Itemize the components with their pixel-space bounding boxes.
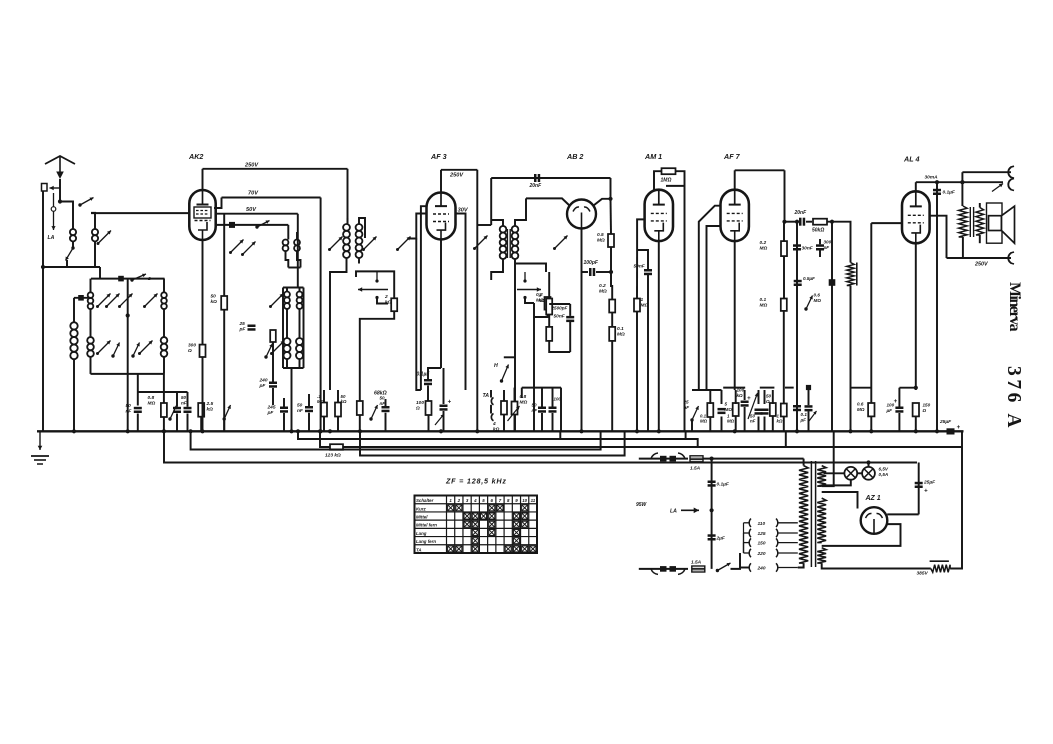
node bus d7 xyxy=(795,429,799,433)
svg-text:AZ 1: AZ 1 xyxy=(865,495,881,502)
ground symbol xyxy=(31,431,49,464)
svg-text:Minerva: Minerva xyxy=(1006,282,1023,332)
svg-text:150: 150 xyxy=(758,541,766,547)
capacitor 0.1u AF3 xyxy=(417,372,433,386)
node bus d4 xyxy=(162,429,166,433)
svg-text:1.5A: 1.5A xyxy=(690,466,701,472)
wire b5 top xyxy=(758,390,760,404)
wire rL gnd xyxy=(549,341,570,352)
wire rTA a xyxy=(503,390,505,401)
wire c300 b xyxy=(819,251,821,258)
svg-text:50nF: 50nF xyxy=(634,264,646,270)
coil IF1 sec xyxy=(356,224,363,258)
capacitor 50n L xyxy=(554,314,575,323)
wire AF7 cath xyxy=(734,241,736,390)
wire AL4 screen xyxy=(930,216,947,258)
svg-text:nF: nF xyxy=(684,405,690,410)
coil IF2 pri xyxy=(500,226,507,259)
wire antenna tap xyxy=(60,202,73,230)
resistor 123k xyxy=(330,444,343,450)
node bus r2 xyxy=(318,429,322,433)
svg-text:pF: pF xyxy=(823,245,830,250)
wire AL4 grid rail xyxy=(870,223,872,403)
svg-text:LA: LA xyxy=(48,235,55,241)
wire g2 up xyxy=(214,198,222,209)
node AVC xyxy=(608,197,612,201)
wire IF2 avc up xyxy=(490,178,492,225)
plug bottom xyxy=(651,566,685,574)
wire osc m1 xyxy=(286,309,288,338)
wire 100u b xyxy=(898,388,900,407)
wire cd top xyxy=(308,394,310,406)
capacitor 50nF b xyxy=(173,407,181,413)
jack out2 xyxy=(1008,179,1014,191)
wire b1 top xyxy=(709,390,711,404)
label 50V xyxy=(246,207,257,213)
wire frame bottom xyxy=(91,373,165,375)
capacitor b10 xyxy=(805,405,813,411)
voltage tap 125 xyxy=(749,529,798,537)
wire b6 gnd xyxy=(764,417,766,432)
node coup xyxy=(830,220,834,224)
wire tap 110 xyxy=(744,523,749,553)
wire r01 gnd xyxy=(611,341,613,431)
wire r05 down xyxy=(610,247,612,272)
svg-text:100pF: 100pF xyxy=(584,260,599,266)
resistor 50k coup xyxy=(812,219,827,234)
capacitor 300pF xyxy=(816,240,832,251)
svg-text:123 kΩ: 123 kΩ xyxy=(325,453,341,459)
wire osc m2 xyxy=(299,309,301,338)
wire cf a xyxy=(541,388,543,407)
svg-text:0.1µF: 0.1µF xyxy=(943,190,956,196)
resistor 385V xyxy=(930,561,951,572)
wire choke b xyxy=(850,286,852,294)
wire AK2 cathode xyxy=(202,240,204,345)
node bus r4 xyxy=(189,429,193,433)
switch S7 xyxy=(168,406,176,421)
wire b frame1 xyxy=(692,389,722,391)
tube AF3 xyxy=(427,152,456,240)
capacitor 100pF xyxy=(584,260,599,276)
wire tap 150 xyxy=(744,543,749,553)
wire AZ1 plate2 xyxy=(822,524,901,546)
wire ra gnd xyxy=(323,417,325,432)
label 25n xyxy=(683,400,690,410)
switch S1 xyxy=(66,246,75,260)
svg-text:385V: 385V xyxy=(917,571,929,577)
wire k link2 xyxy=(899,387,915,389)
svg-text:Lang: Lang xyxy=(416,531,427,536)
svg-text:50V: 50V xyxy=(246,207,257,213)
node bus d6 xyxy=(635,429,639,433)
wire S1 gnd xyxy=(66,260,68,267)
capacitor grid blk xyxy=(829,279,836,286)
switch S6 xyxy=(264,344,272,359)
wire rb gnd xyxy=(337,417,339,432)
wire IF1 sec bot xyxy=(358,258,360,264)
wire r08 gnd xyxy=(163,417,165,431)
wire osc d1 xyxy=(286,251,289,267)
coil L7 xyxy=(161,337,168,357)
jack TA up xyxy=(491,398,493,405)
node mains xyxy=(710,457,714,461)
wire spk rail top xyxy=(961,172,963,206)
inductor hum choke xyxy=(847,263,857,286)
svg-text:AL 4: AL 4 xyxy=(903,155,919,164)
wire AF3 cath xyxy=(440,240,442,369)
capacitor 100u xyxy=(894,398,904,413)
svg-text:+: + xyxy=(957,424,961,431)
wire bus corner xyxy=(961,431,963,447)
wire frame L top xyxy=(90,279,92,293)
wire AF7 rc xyxy=(783,311,785,404)
svg-text:6,5V: 6,5V xyxy=(879,467,889,472)
switch b10 xyxy=(809,411,817,421)
wire return LC xyxy=(191,431,601,449)
coil L1 antenna xyxy=(70,229,76,241)
svg-text:0.2: 0.2 xyxy=(760,240,767,246)
tube AL4 xyxy=(902,155,930,244)
wire cf b xyxy=(541,413,543,431)
wire return LA xyxy=(298,431,698,447)
wire frame 522 xyxy=(521,388,523,398)
transformer IF2 core xyxy=(507,229,510,258)
resistor 0.2M L xyxy=(536,292,552,315)
wire 240 b xyxy=(272,388,274,405)
wire c100 a xyxy=(582,271,589,273)
wire block drop2 xyxy=(163,374,165,403)
wire AM1 ca xyxy=(637,250,648,269)
svg-text:MΩ: MΩ xyxy=(727,419,735,424)
svg-text:kΩ: kΩ xyxy=(737,393,744,398)
node gnd link xyxy=(41,265,45,269)
wire AF7 rb xyxy=(783,256,785,298)
wire 70V drop xyxy=(320,198,322,432)
wire AZ1 plate1 xyxy=(822,492,858,509)
voltage tap 110 xyxy=(749,519,798,527)
svg-text:1MΩ: 1MΩ xyxy=(661,178,672,184)
svg-text:50: 50 xyxy=(380,396,386,401)
svg-text:Lang fern: Lang fern xyxy=(416,539,436,544)
wire b frame2b xyxy=(760,387,775,389)
node t2 xyxy=(960,180,964,184)
capacitor b9 xyxy=(793,405,801,411)
tube AZ1 xyxy=(861,507,888,534)
trimmer osc4 xyxy=(270,341,285,356)
label LA xyxy=(48,235,55,241)
node k link xyxy=(914,386,918,390)
svg-text:AB 2: AB 2 xyxy=(566,152,583,161)
resistor L b xyxy=(546,327,552,341)
wire prim bot xyxy=(798,563,804,567)
switch TA2 arm xyxy=(517,272,541,299)
node bus h xyxy=(914,429,918,433)
wire 50k tap xyxy=(223,214,225,296)
wire heater rail xyxy=(850,293,852,431)
node bus b xyxy=(289,429,293,433)
svg-text:245: 245 xyxy=(267,405,276,411)
resistor 300 xyxy=(187,343,206,358)
wire tap 125 xyxy=(744,533,749,553)
svg-text:100: 100 xyxy=(554,397,562,402)
switch box TA2 xyxy=(516,264,546,273)
wire 832 rail b xyxy=(831,286,833,432)
svg-text:50kΩ: 50kΩ xyxy=(812,228,824,234)
wire b3 top xyxy=(735,390,737,404)
svg-text:50: 50 xyxy=(297,403,303,409)
wire gnd link xyxy=(43,266,100,268)
wire s8 stub xyxy=(223,419,225,431)
wire AVC drop xyxy=(610,178,612,199)
fuse 1.5A bot xyxy=(692,566,705,572)
capacitor b6 xyxy=(761,409,769,415)
wire b5 gnd xyxy=(758,417,760,432)
trimmer C5 xyxy=(143,294,158,309)
wire tall top xyxy=(73,298,75,322)
wire AL4 top xyxy=(916,181,1003,183)
node bus c xyxy=(439,429,443,433)
wire ely b xyxy=(443,411,445,431)
tube AB2 xyxy=(566,152,596,229)
wire TA mid xyxy=(490,405,492,414)
trimmer IF2b xyxy=(553,236,568,251)
wire lamp line xyxy=(824,472,845,474)
wire b frame3 xyxy=(691,420,693,431)
capacitor 50nF c xyxy=(181,395,192,413)
wire IF2 sec top xyxy=(515,198,526,226)
wire ely a xyxy=(443,368,445,404)
wire r02 a xyxy=(611,272,612,300)
wire k node xyxy=(428,368,441,379)
coil L10 xyxy=(284,292,290,309)
wire b4 top xyxy=(744,390,746,400)
capacitor 30nF xyxy=(793,244,814,251)
wire osc r2 xyxy=(296,232,298,240)
wire AB2 grid xyxy=(526,198,570,206)
resistor 100 xyxy=(415,400,432,415)
node bus r3 xyxy=(358,429,362,433)
coil L11 xyxy=(297,292,303,309)
svg-text:MΩ: MΩ xyxy=(599,289,607,295)
transformer T1 HT xyxy=(817,498,826,542)
svg-text:25: 25 xyxy=(683,400,690,405)
wire lamp bot xyxy=(822,480,851,486)
wire block drop1 xyxy=(137,374,139,406)
svg-text:AF 3: AF 3 xyxy=(430,152,447,161)
svg-text:50: 50 xyxy=(126,403,132,409)
wire 832 rail xyxy=(831,222,833,280)
wire AF3 grid xyxy=(409,214,427,239)
svg-text:10: 10 xyxy=(522,498,527,503)
wire left rail xyxy=(42,191,44,431)
label H xyxy=(494,363,498,369)
resistor 0.8M xyxy=(148,395,167,417)
wire cap blk gnd xyxy=(137,414,139,432)
capacitor 25p xyxy=(239,321,256,333)
wire sec bot xyxy=(822,563,931,568)
wire b4 gnd xyxy=(744,407,746,431)
resistor b1 xyxy=(700,403,713,424)
lamp P2 xyxy=(862,467,875,480)
node t1 xyxy=(935,180,939,184)
wire c300 a xyxy=(819,239,821,244)
svg-text:50: 50 xyxy=(211,294,217,300)
speaker cone xyxy=(1002,206,1015,243)
wire ce top xyxy=(385,399,387,406)
trimmer IF1a xyxy=(328,237,343,252)
wire stub 685 xyxy=(685,431,687,439)
svg-text:+: + xyxy=(747,395,751,402)
wire cL b xyxy=(569,322,571,352)
capacitor 1uF AL4 xyxy=(933,189,941,195)
label 1.5A top xyxy=(690,466,701,472)
svg-text:nF: nF xyxy=(532,408,538,413)
wire coup a xyxy=(784,221,797,223)
wire osc b1 xyxy=(286,359,288,368)
arrow LA2 xyxy=(670,508,699,515)
capacitor 50n e xyxy=(380,396,390,413)
svg-text:kΩ: kΩ xyxy=(207,407,214,413)
wire AF3 g3 xyxy=(421,206,427,390)
wire pot a xyxy=(514,388,516,402)
switch S2 xyxy=(78,198,93,207)
svg-text:Ω: Ω xyxy=(415,406,420,412)
wire b10 v xyxy=(808,388,810,406)
wire osc l a xyxy=(286,288,288,292)
svg-text:100: 100 xyxy=(887,403,895,408)
svg-text:nF: nF xyxy=(750,419,756,424)
switch box TA1 xyxy=(356,271,394,298)
wire mains t2 xyxy=(703,458,804,460)
label 2 xyxy=(147,276,151,282)
svg-text:Mittel fern: Mittel fern xyxy=(416,523,437,528)
arrow pot2 xyxy=(748,393,758,419)
antenna xyxy=(45,156,75,179)
wire cc gnd xyxy=(187,414,189,432)
wire return LD xyxy=(360,431,625,455)
trimmer osc1 xyxy=(229,240,244,255)
resistor 1M c xyxy=(634,297,648,312)
capacitor 50n AM1 xyxy=(634,264,653,276)
wire osc fr L xyxy=(282,288,284,369)
wire AK2 plate xyxy=(202,169,204,190)
wire r02 b xyxy=(611,313,613,327)
tube AF7 xyxy=(721,152,749,241)
label 70V xyxy=(248,191,259,197)
wire bus stub xyxy=(74,297,91,299)
capacitor b2 xyxy=(718,408,726,414)
switch H xyxy=(500,365,509,383)
wire IF2 pri bot xyxy=(491,259,503,280)
svg-text:Ω: Ω xyxy=(765,399,770,404)
svg-text:2µF: 2µF xyxy=(716,536,726,542)
wire AL4 grid rail b xyxy=(870,416,872,431)
node bus d xyxy=(579,429,583,433)
svg-text:300: 300 xyxy=(824,240,832,245)
voltage tap 150 xyxy=(749,538,798,546)
wire AF3 g2 xyxy=(456,214,466,391)
wire osc top fr xyxy=(283,287,304,289)
svg-text:MΩ: MΩ xyxy=(760,303,768,309)
wire rTA b xyxy=(503,415,505,432)
wire AF7 ra xyxy=(783,222,785,241)
svg-text:250V: 250V xyxy=(449,173,464,179)
wire OT a xyxy=(979,203,981,208)
wire stub 785 xyxy=(785,431,787,447)
wire ce gnd xyxy=(385,413,387,432)
wire field dn xyxy=(962,237,964,258)
wire b2 gnd xyxy=(721,417,723,432)
wire AM1 left xyxy=(637,219,645,250)
svg-text:4: 4 xyxy=(473,498,477,503)
capacitor 100p g xyxy=(549,397,562,413)
resistor b8 xyxy=(781,404,787,417)
wire 50V line xyxy=(216,213,298,215)
svg-text:20nF: 20nF xyxy=(794,210,808,216)
label 250V b xyxy=(449,173,464,179)
wire b3 gnd xyxy=(735,417,737,432)
svg-text:220: 220 xyxy=(757,551,766,557)
wire rL mid xyxy=(548,315,550,327)
coil L12 xyxy=(284,338,291,359)
svg-text:11: 11 xyxy=(531,498,536,503)
capacitor 20n coup xyxy=(794,210,808,226)
svg-text:MΩ: MΩ xyxy=(700,419,708,424)
svg-text:kΩ: kΩ xyxy=(385,300,392,306)
svg-text:0,5A: 0,5A xyxy=(879,472,889,477)
svg-text:0.8: 0.8 xyxy=(520,394,527,400)
plug top xyxy=(651,453,685,461)
wire cd gnd xyxy=(308,413,310,432)
switch S5 xyxy=(131,343,139,358)
wire lamp stub xyxy=(868,463,870,468)
wire b2 top xyxy=(721,390,723,404)
coil L3 tall xyxy=(70,322,77,359)
wire L1 lead xyxy=(72,241,74,248)
svg-text:30mA: 30mA xyxy=(925,175,939,181)
wire HT right xyxy=(950,447,962,569)
wire r68 gnd xyxy=(359,415,361,431)
node top sq xyxy=(118,276,124,282)
wire osc fr R xyxy=(303,288,305,369)
node bus a3 xyxy=(475,429,479,433)
wire H hook xyxy=(504,356,515,358)
svg-text:25µF: 25µF xyxy=(923,480,936,486)
wire AF7 rail xyxy=(784,170,786,221)
transformer T1 core xyxy=(811,461,815,567)
resistor pot 0.8M xyxy=(512,402,518,415)
coil L8 xyxy=(283,240,289,252)
wire TA2 link xyxy=(522,387,561,389)
svg-text:MΩ: MΩ xyxy=(760,246,768,252)
wire b8 gnd xyxy=(783,417,785,432)
label 1uF xyxy=(943,190,956,196)
wire tall gnd xyxy=(73,359,75,431)
svg-text:0.5µF: 0.5µF xyxy=(803,276,815,281)
jack out3 xyxy=(1008,252,1014,264)
node bus d9 xyxy=(935,429,939,433)
svg-text:MΩ: MΩ xyxy=(814,298,822,303)
resistor 2k TA1 xyxy=(384,294,397,311)
node AF7 plate xyxy=(782,220,786,224)
wire IF2 feed xyxy=(477,224,491,226)
svg-text:2.5: 2.5 xyxy=(206,401,214,407)
label TA xyxy=(483,393,490,399)
wire return LE xyxy=(164,431,917,462)
svg-text:nF: nF xyxy=(181,400,187,405)
svg-text:pF: pF xyxy=(239,327,247,333)
